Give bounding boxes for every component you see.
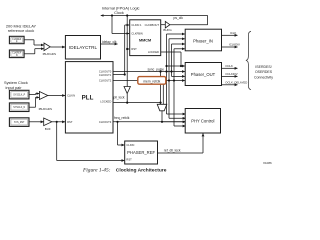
svg-text:IBUFGDS: IBUFGDS [39,107,52,111]
svg-text:RST: RST [67,120,73,124]
svg-text:ref_dll_lock: ref_dll_lock [164,149,181,153]
svg-text:LOCKED: LOCKED [148,50,159,54]
svg-text:sync_pulse: sync_pulse [148,68,165,72]
svg-text:CLKOUT1: CLKOUT1 [99,73,112,77]
svg-text:CLKFBIN: CLKFBIN [131,32,142,36]
svg-text:OSERDES: OSERDES [255,70,273,74]
svg-text:CLKOUT0: CLKOUT0 [99,70,112,74]
svg-text:BUF: BUF [45,127,51,131]
svg-text:BUFG: BUFG [163,28,172,32]
svg-text:input pair: input pair [5,85,22,90]
svg-text:SYSCLK_P: SYSCLK_P [13,95,25,97]
svg-text:Clocking Architecture: Clocking Architecture [116,168,167,174]
svg-text:CLKOUT3: CLKOUT3 [99,120,112,124]
svg-text:OCLK: OCLK [225,64,233,68]
svg-text:CLKIN: CLKIN [67,94,75,98]
svg-text:LOCKED: LOCKED [100,100,111,104]
svg-text:CLKIN 1: CLKIN 1 [131,23,142,27]
svg-text:ICLKDIV: ICLKDIV [229,43,240,47]
svg-text:IBUFGDS: IBUFGDS [43,52,56,56]
svg-text:PLL: PLL [82,95,94,102]
svg-text:Clock: Clock [114,10,124,15]
svg-text:mem_refclk: mem_refclk [143,79,160,83]
svg-text:pll_lock: pll_lock [114,95,125,99]
svg-text:Figure 1-45:: Figure 1-45: [82,168,111,174]
svg-text:OCLKDIV: OCLKDIV [225,72,237,76]
svg-text:Phaser_OUT: Phaser_OUT [191,72,216,77]
svg-text:idelay_clk: idelay_clk [102,40,117,44]
svg-text:reference clock: reference clock [8,28,34,33]
svg-text:ps_clk: ps_clk [174,16,184,20]
svg-text:OCLK_DELAYED: OCLK_DELAYED [225,81,247,85]
svg-text:CLKOUT2: CLKOUT2 [99,79,112,83]
svg-text:PHASER_REF: PHASER_REF [127,150,155,155]
svg-text:CLKFBOUT: CLKFBOUT [145,23,160,27]
svg-text:ICLK: ICLK [230,31,236,35]
svg-text:freq_refclk: freq_refclk [114,116,130,120]
svg-text:X1086: X1086 [263,161,272,165]
svg-text:SYSCLK_N: SYSCLK_N [13,107,25,109]
svg-text:Phaser_IN: Phaser_IN [193,38,213,43]
svg-text:RST: RST [131,47,137,51]
svg-text:ISERDES/: ISERDES/ [255,65,271,69]
svg-text:Connectivity: Connectivity [254,76,273,80]
svg-text:RST: RST [126,157,132,161]
svg-text:IDELAYCTRL: IDELAYCTRL [69,45,97,50]
svg-text:PHY Control: PHY Control [191,118,214,123]
svg-text:CLKIN: CLKIN [126,143,134,147]
svg-text:MMCM: MMCM [139,38,151,42]
svg-text:SYS_RST: SYS_RST [14,122,25,124]
